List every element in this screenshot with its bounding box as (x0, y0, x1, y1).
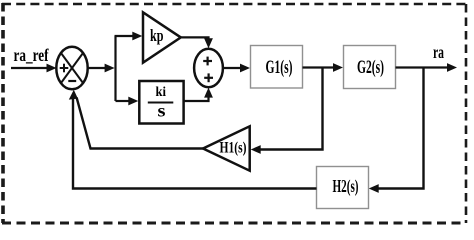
svg-text:H2(s): H2(s) (333, 176, 359, 196)
wire ki/s output to summing junction S2 (right then up) (184, 88, 213, 101)
svg-text:ra: ra (433, 42, 444, 62)
wire branch to integrator ki/s (116, 97, 139, 106)
gain block kp (triangle) (143, 12, 181, 62)
wire S1 output to branch node B (88, 64, 115, 73)
wire junction J1 down to H1 input (251, 68, 323, 154)
node B branch vertical wire (114, 36, 116, 101)
integrator block ki/s (139, 81, 183, 124)
wire junction J2 down to H2 input (369, 68, 424, 193)
svg-text:ra_ref: ra_ref (14, 45, 50, 65)
node ra_ref label (14, 45, 50, 65)
S1 plus sign (60, 64, 69, 73)
S1 minus sign (68, 80, 76, 82)
svg-text:H1(s): H1(s) (220, 139, 247, 156)
S2 lower plus sign (204, 73, 213, 82)
wire kp output to summing junction S2 (right then down) (181, 37, 213, 48)
wire G1 output to G2 with junction node J1 (303, 63, 344, 72)
summing junction S2 (194, 49, 223, 87)
wire S2 output to G1 (223, 64, 250, 73)
svg-text:G2(s): G2(s) (357, 58, 384, 78)
svg-text:G1(s): G1(s) (266, 58, 293, 78)
summing junction S1 (56, 47, 87, 90)
svg-text:ki: ki (156, 85, 167, 100)
wire H1 output to S1 (left then diagonal up) (77, 98, 203, 149)
wire branch to kp amplifier (115, 32, 143, 41)
svg-text:s: s (158, 101, 166, 121)
block G2(s) (344, 46, 396, 89)
wire input ra_ref to summing junction S1 (11, 64, 57, 73)
feedback block H1(s) (triangle) (203, 126, 250, 170)
S2 upper plus sign (203, 57, 212, 66)
node ra output label (433, 42, 444, 62)
feedback block H2(s) (317, 167, 369, 209)
wire G2 output to ra with junction node J2 (396, 63, 458, 72)
svg-text:kp: kp (150, 26, 164, 45)
wire H2 output to S1 (left then up) (69, 90, 317, 189)
block G1(s) (251, 46, 303, 89)
